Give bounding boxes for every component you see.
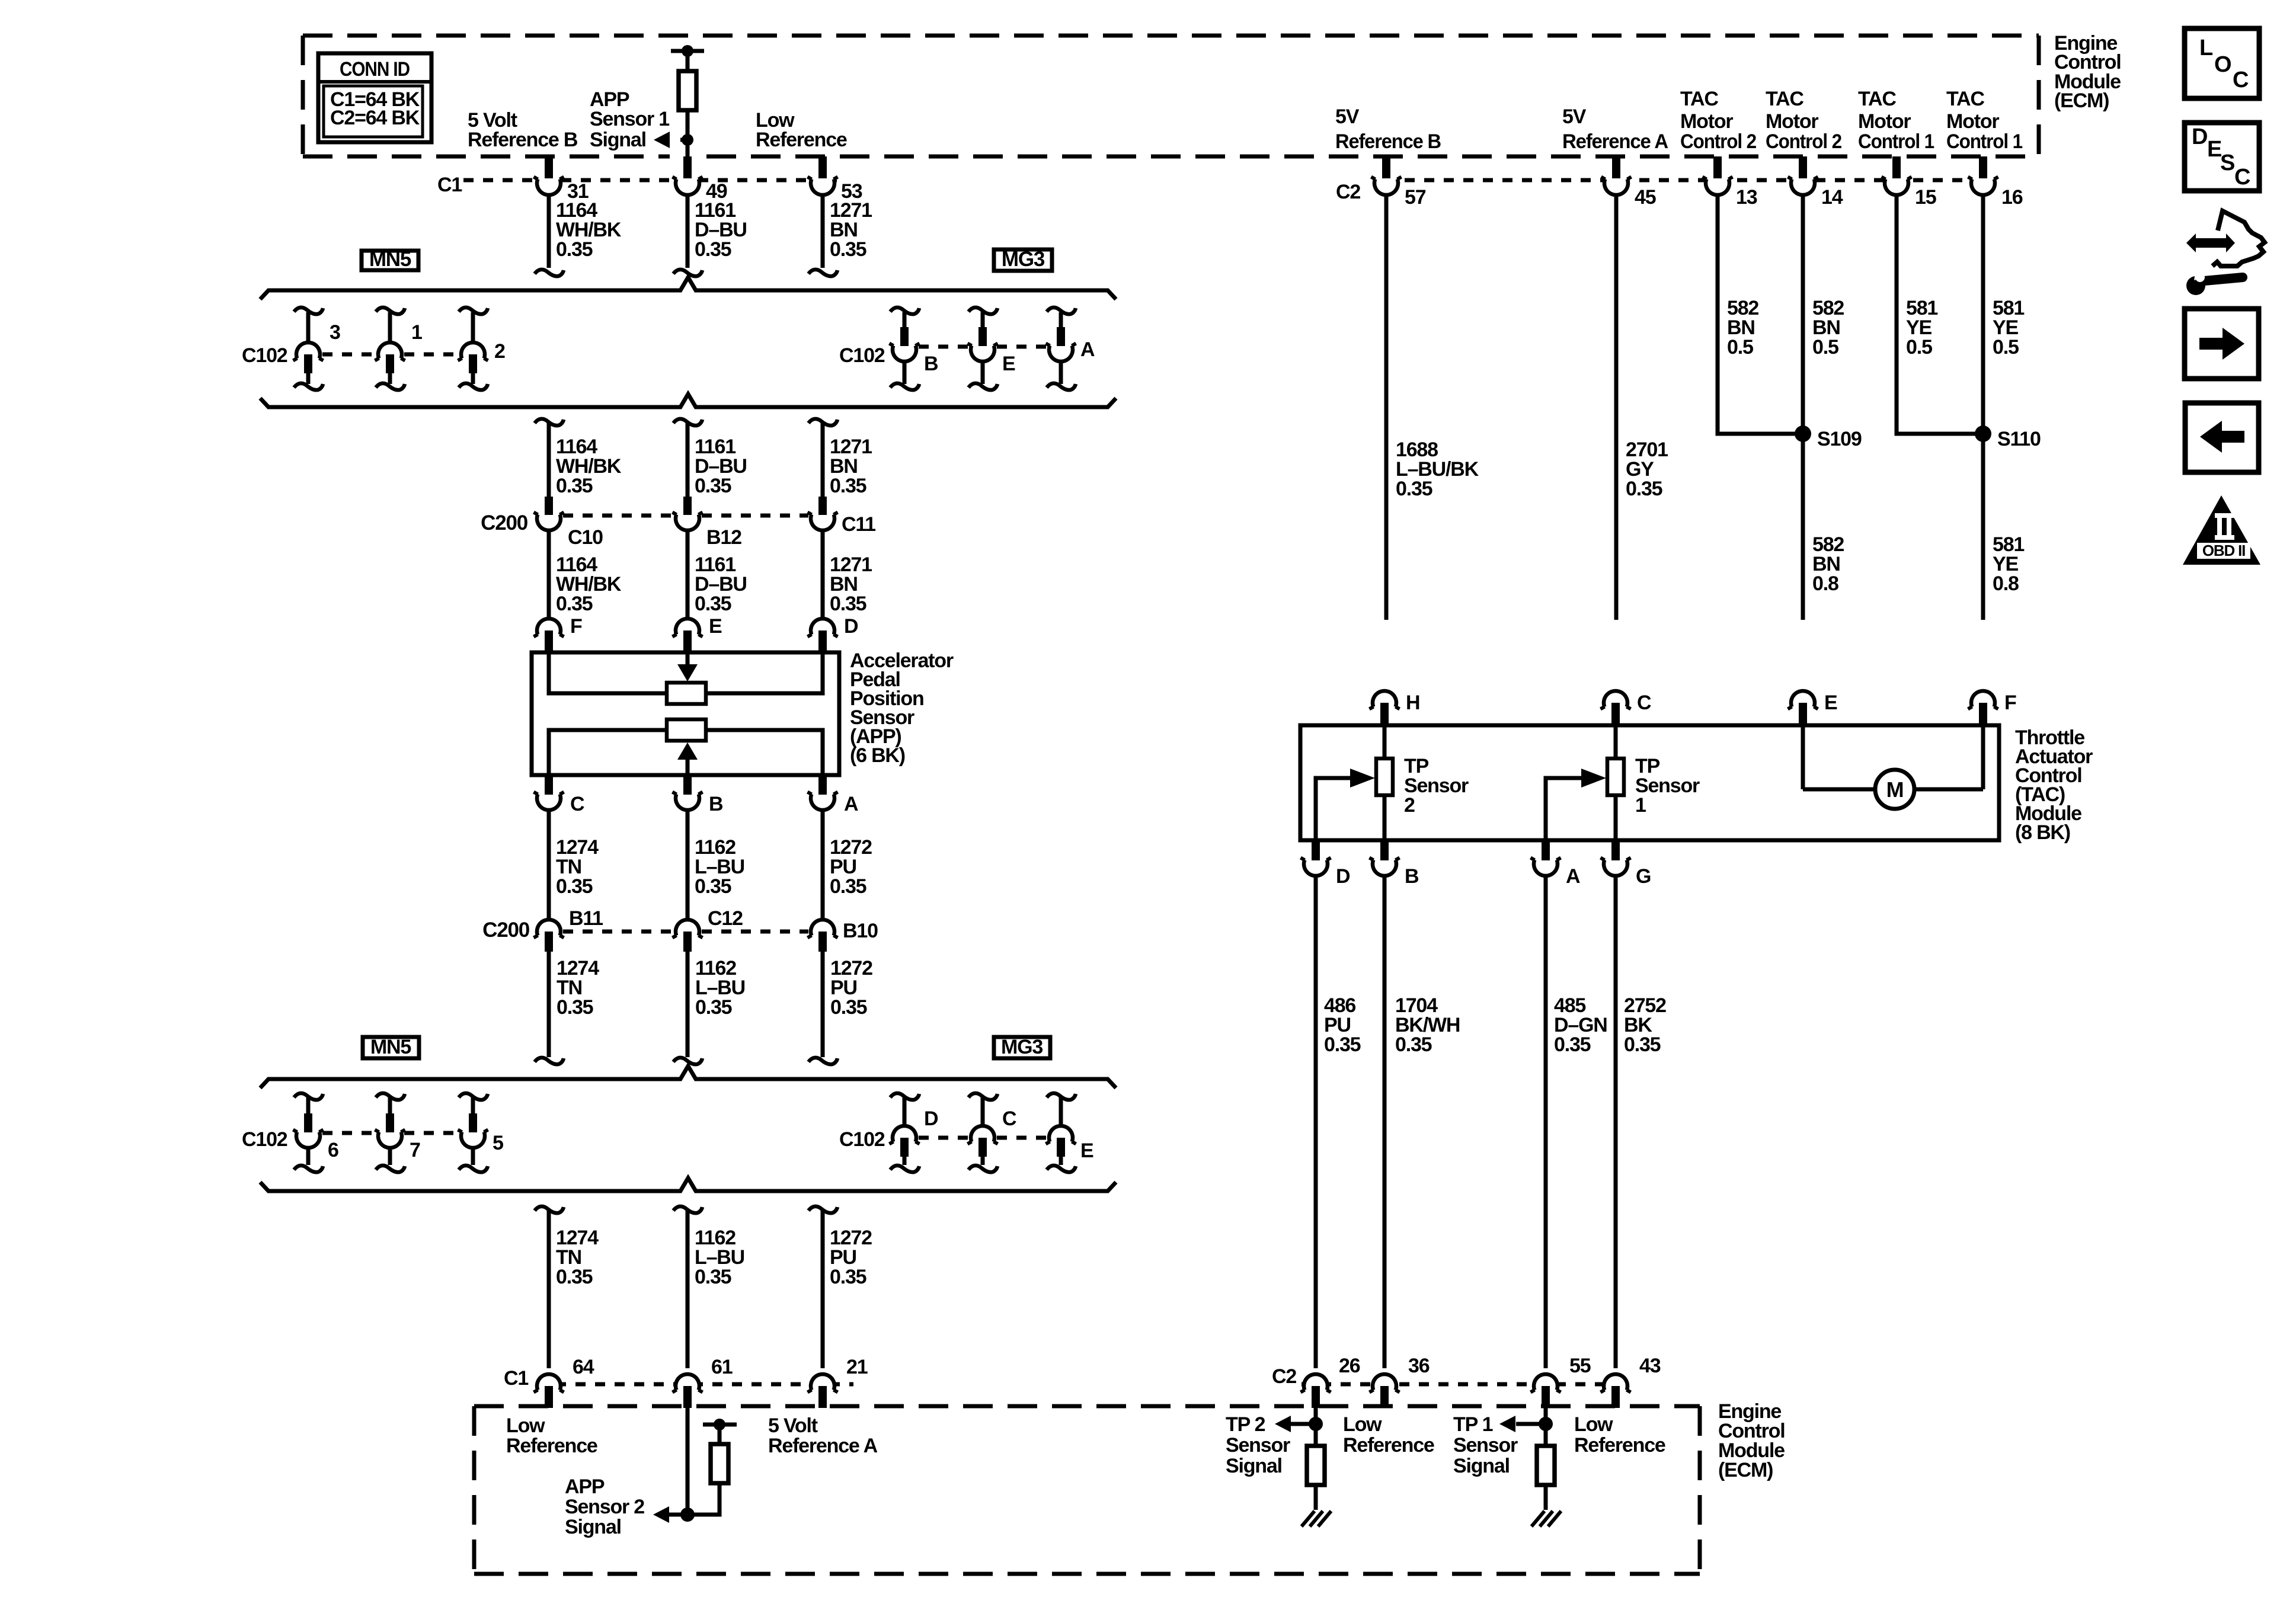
svg-text:B10: B10 <box>843 920 878 942</box>
pin 6 of C102 lower <box>294 1093 323 1100</box>
pin 3 of C102 upper <box>294 308 323 314</box>
svg-text:55: 55 <box>1569 1355 1591 1377</box>
pin 61 of C1 bottom <box>675 1368 700 1393</box>
pin 7 of C102 lower <box>376 1093 405 1100</box>
svg-text:Reference B: Reference B <box>468 129 578 151</box>
svg-text:16: 16 <box>2001 186 2023 209</box>
wire 1161 segment (band to C200) <box>673 419 702 425</box>
pin C of APP sensor bottom <box>545 775 553 795</box>
svg-text:TP 1: TP 1 <box>1453 1413 1493 1436</box>
module box: Engine Control Module (ECM) top, dashed <box>303 36 2039 156</box>
svg-text:D: D <box>1336 865 1350 888</box>
pin B11 of C200 lower <box>537 920 561 936</box>
svg-text:0.35: 0.35 <box>695 238 731 261</box>
icon: DESC box <box>2185 123 2259 191</box>
svg-text:0.35: 0.35 <box>695 875 731 898</box>
pin A of APP sensor bottom <box>818 775 827 795</box>
pin 45 of C2 <box>1604 172 1629 197</box>
svg-text:C2: C2 <box>1272 1365 1296 1388</box>
svg-text:0.35: 0.35 <box>1626 478 1662 500</box>
svg-text:0.35: 0.35 <box>1554 1033 1591 1056</box>
svg-text:0.35: 0.35 <box>695 593 731 615</box>
svg-text:15: 15 <box>1915 186 1936 209</box>
pin 36 of C2 bottom <box>1372 1368 1397 1393</box>
wire: APP pot1 left lead <box>549 654 667 693</box>
wiper arrow: APP sensor 1 <box>686 654 690 666</box>
wire: TP2 sensor signal <box>1314 1408 1318 1424</box>
pin 1 of C102 upper <box>376 308 405 314</box>
svg-text:E: E <box>1080 1140 1093 1162</box>
module box: Throttle Actuator Control (TAC) Module <box>1300 725 1999 840</box>
svg-text:Reference A: Reference A <box>768 1435 878 1457</box>
svg-text:S109: S109 <box>1817 428 1862 450</box>
svg-text:OBD II: OBD II <box>2202 542 2245 559</box>
svg-text:0.35: 0.35 <box>556 1266 593 1288</box>
resistor R2 (APP sensor 2 pull-up inside ECM) <box>703 1423 737 1427</box>
pin F of TAC module <box>1971 691 1995 707</box>
svg-text:C12: C12 <box>708 907 743 930</box>
wire 1162 segment (band to ECM) <box>673 1206 702 1213</box>
svg-text:0.35: 0.35 <box>695 996 732 1019</box>
pin 49 of C1 <box>675 172 700 197</box>
svg-text:Reference: Reference <box>1343 1434 1434 1457</box>
svg-text:2: 2 <box>1404 794 1415 817</box>
svg-text:C: C <box>1002 1108 1016 1130</box>
svg-text:Low: Low <box>1574 1413 1613 1436</box>
node: TP2 junction <box>1309 1417 1323 1431</box>
svg-text:13: 13 <box>1736 186 1757 209</box>
pin 53 of C1 <box>810 172 835 197</box>
harness band upper: bottom brace <box>260 394 1116 407</box>
svg-text:0.35: 0.35 <box>830 875 866 898</box>
pin C10 of C200 upper <box>545 497 553 515</box>
svg-text:C200: C200 <box>481 511 528 534</box>
node: TP1 junction <box>1539 1417 1553 1431</box>
pin E of APP sensor <box>676 619 699 635</box>
resistor: TP2 pull inside ECM <box>1314 1424 1318 1446</box>
pin 57 of C2 <box>1374 172 1399 197</box>
svg-text:MG3: MG3 <box>1001 1036 1043 1058</box>
wire 2701 GY (5V ref A to TAC C) <box>1614 194 1619 620</box>
wire 1161 D-BU segment <box>686 194 690 268</box>
node: APP sensor 2 signal junction <box>680 1507 695 1522</box>
svg-text:2: 2 <box>494 340 505 363</box>
svg-text:Signal: Signal <box>1453 1455 1510 1477</box>
resistor R1 (APP sensor 1 pull-up inside ECM) <box>671 49 704 53</box>
icon: left arrow box <box>2185 403 2259 472</box>
wire 1271 segment (band to C200) <box>808 419 837 425</box>
pin 2 of C102 upper <box>459 308 488 314</box>
svg-text:Control 2: Control 2 <box>1680 130 1756 153</box>
svg-text:Signal: Signal <box>1226 1455 1282 1477</box>
pin A of C102 upper MG3 <box>1047 308 1076 314</box>
svg-text:0.35: 0.35 <box>556 475 593 497</box>
svg-text:Control 1: Control 1 <box>1946 130 2022 153</box>
svg-text:Reference A: Reference A <box>1562 130 1668 153</box>
svg-text:M: M <box>1886 777 1904 802</box>
wire: APP pot2 right lead <box>706 730 823 773</box>
svg-text:Low: Low <box>506 1414 545 1437</box>
svg-text:0.35: 0.35 <box>830 996 867 1019</box>
module box: Accelerator Pedal Position Sensor (APP) <box>532 652 839 775</box>
pin 15 of C2 <box>1884 172 1909 197</box>
pin 16 of C2 <box>1971 172 1996 197</box>
wire: APP pot2 left lead <box>549 730 667 773</box>
svg-text:0.5: 0.5 <box>1727 336 1753 359</box>
svg-text:5V: 5V <box>1562 105 1587 128</box>
wire 1271 BN segment <box>821 194 825 268</box>
svg-text:B: B <box>1405 865 1419 888</box>
svg-text:Signal: Signal <box>565 1516 621 1538</box>
svg-text:F: F <box>2004 692 2016 714</box>
svg-text:0.35: 0.35 <box>830 238 866 261</box>
svg-text:0.35: 0.35 <box>1624 1033 1661 1056</box>
resistor: TP1 pull inside ECM <box>1544 1424 1548 1446</box>
svg-text:0.35: 0.35 <box>556 875 593 898</box>
svg-text:Motor: Motor <box>1946 110 1999 133</box>
pin 14 of C2 <box>1790 172 1815 197</box>
svg-text:C200: C200 <box>482 918 530 942</box>
svg-text:(ECM): (ECM) <box>2054 89 2109 112</box>
wire 1272 segment (band to ECM) <box>808 1206 837 1213</box>
svg-text:64: 64 <box>573 1356 594 1378</box>
svg-text:C: C <box>2233 68 2249 92</box>
svg-text:A: A <box>1080 338 1095 361</box>
svg-text:Sensor: Sensor <box>1453 1434 1518 1457</box>
svg-text:TP 2: TP 2 <box>1226 1413 1265 1436</box>
arrow: APP sensor 2 signal <box>653 1506 669 1523</box>
pin D of C102 lower MG3 <box>890 1093 919 1100</box>
pin C11 of C200 upper <box>818 497 827 515</box>
svg-text:E: E <box>1002 353 1015 375</box>
svg-text:S110: S110 <box>1997 428 2041 450</box>
svg-text:(6 BK): (6 BK) <box>850 744 905 767</box>
wire 582 BN 0.5 (pin 14) <box>1801 194 1805 620</box>
svg-text:C11: C11 <box>842 513 875 536</box>
pin C of TAC module <box>1604 691 1627 707</box>
svg-text:Motor: Motor <box>1766 110 1818 133</box>
svg-text:G: G <box>1636 865 1651 888</box>
pin B of APP sensor bottom <box>683 775 692 795</box>
svg-text:Reference: Reference <box>506 1435 597 1457</box>
pin A of TAC module bottom <box>1542 840 1550 860</box>
pin 43 of C2 bottom <box>1603 1368 1628 1393</box>
svg-text:0.5: 0.5 <box>1906 336 1932 359</box>
label box MN5 (upper) <box>362 251 418 270</box>
wire 581 YE 0.5 (pin 16) <box>1981 194 1985 620</box>
svg-text:57: 57 <box>1405 186 1426 209</box>
svg-text:Motor: Motor <box>1858 110 1911 133</box>
node: APP sensor 1 signal junction <box>682 134 693 146</box>
harness band upper: top brace <box>260 277 1116 299</box>
label box MG3 (lower) <box>994 1037 1050 1058</box>
svg-text:Sensor 2: Sensor 2 <box>565 1496 644 1518</box>
icon: right arrow box <box>2185 309 2259 379</box>
wire 1164 WH/BK segment (ECM to C102) <box>547 194 551 268</box>
svg-text:CONN ID: CONN ID <box>340 58 410 81</box>
svg-text:0.35: 0.35 <box>557 996 593 1019</box>
harness band lower: bottom brace <box>260 1178 1116 1191</box>
wire 1164 segment (band to C200) <box>535 419 564 425</box>
svg-text:A: A <box>1566 865 1580 888</box>
svg-text:0.35: 0.35 <box>556 593 593 615</box>
svg-text:Motor: Motor <box>1680 110 1733 133</box>
svg-text:Reference: Reference <box>756 129 847 151</box>
svg-text:APP: APP <box>565 1475 605 1498</box>
svg-text:D: D <box>844 615 858 638</box>
wiper arrow: TP sensor 2 <box>1316 778 1357 840</box>
ground: TP2 <box>1302 1511 1315 1526</box>
svg-text:C102: C102 <box>839 1128 885 1151</box>
resistor: TP sensor 1 pot <box>1614 725 1618 758</box>
svg-text:F: F <box>570 615 582 638</box>
svg-text:0.35: 0.35 <box>1324 1033 1361 1056</box>
svg-text:0.5: 0.5 <box>1812 336 1838 359</box>
svg-text:TAC: TAC <box>1946 88 1984 110</box>
svg-text:Control 1: Control 1 <box>1858 130 1934 153</box>
svg-text:S: S <box>2220 151 2234 175</box>
svg-text:B: B <box>924 353 938 375</box>
motor M (throttle motor) <box>1801 725 1805 789</box>
svg-text:36: 36 <box>1408 1355 1430 1377</box>
svg-text:MG3: MG3 <box>1002 248 1045 271</box>
svg-text:TAC: TAC <box>1858 88 1896 110</box>
svg-text:Sensor 1: Sensor 1 <box>590 108 669 130</box>
wire 582 BN 0.5 (pin 13) <box>1718 194 1803 434</box>
svg-text:Low: Low <box>1343 1413 1382 1436</box>
svg-text:1: 1 <box>1635 794 1646 817</box>
pin G of TAC module bottom <box>1611 840 1620 860</box>
svg-text:Sensor: Sensor <box>1226 1434 1290 1457</box>
svg-text:C2=64 BK: C2=64 BK <box>330 107 420 129</box>
svg-text:E: E <box>1824 692 1837 714</box>
svg-text:MN5: MN5 <box>370 1036 411 1058</box>
pin B10 of C200 lower <box>811 920 834 936</box>
label box MG3 (upper) <box>994 249 1052 271</box>
svg-text:E: E <box>2207 137 2221 162</box>
svg-text:L: L <box>2199 36 2213 60</box>
pin D of TAC module bottom <box>1312 840 1320 860</box>
svg-text:1: 1 <box>411 321 422 344</box>
svg-text:MN5: MN5 <box>369 248 411 271</box>
arrow: TP2 sensor signal <box>1275 1416 1291 1432</box>
svg-text:C1: C1 <box>504 1367 528 1390</box>
splice S110 <box>1975 425 1991 442</box>
pin E of TAC module <box>1791 691 1815 707</box>
svg-text:Signal: Signal <box>590 129 646 151</box>
svg-text:0.8: 0.8 <box>1812 572 1838 595</box>
svg-text:A: A <box>844 793 858 815</box>
svg-text:Control 2: Control 2 <box>1766 130 1841 153</box>
splice S109 <box>1795 425 1811 442</box>
svg-text:7: 7 <box>410 1139 420 1161</box>
pin 5 of C102 lower <box>459 1093 488 1100</box>
svg-text:B11: B11 <box>569 907 603 930</box>
wire: TP1 sensor signal <box>1544 1408 1548 1424</box>
svg-text:0.35: 0.35 <box>695 1266 731 1288</box>
harness band lower: top brace <box>260 1066 1116 1088</box>
svg-text:3: 3 <box>330 321 340 344</box>
svg-text:C1: C1 <box>437 174 462 196</box>
svg-text:C2: C2 <box>1336 181 1360 203</box>
svg-text:TAC: TAC <box>1766 88 1803 110</box>
svg-text:C102: C102 <box>242 344 287 367</box>
svg-text:C102: C102 <box>839 344 885 367</box>
wire 581 YE 0.5 (pin 15) <box>1897 194 1983 434</box>
resistor: TP sensor 2 pot <box>1383 725 1387 758</box>
pin C of C102 lower MG3 <box>968 1093 997 1100</box>
svg-text:(ECM): (ECM) <box>1718 1459 1773 1481</box>
wire end squiggle <box>808 1058 837 1064</box>
svg-text:C: C <box>2234 165 2250 190</box>
svg-text:D: D <box>2192 124 2207 149</box>
wire end squiggle <box>535 1058 564 1064</box>
pin B of C102 upper MG3 <box>890 308 919 314</box>
icon: LOC box <box>2185 28 2259 98</box>
wire 1274 segment (band to ECM) <box>535 1206 564 1213</box>
svg-text:TAC: TAC <box>1680 88 1718 110</box>
svg-text:5 Volt: 5 Volt <box>768 1414 818 1437</box>
svg-text:(8 BK): (8 BK) <box>2015 821 2070 844</box>
arrow: TP1 sensor signal <box>1499 1416 1515 1432</box>
svg-text:D: D <box>924 1108 938 1130</box>
pin E of C102 upper MG3 <box>968 308 997 314</box>
resistor: APP pot 2 <box>667 719 706 741</box>
pin 55 of C2 bottom <box>1533 1368 1558 1393</box>
pin F of APP sensor <box>537 619 561 635</box>
pin 31 of C1 <box>536 172 561 197</box>
icon: accelerator pedal with double arrow and wrench <box>2186 233 2235 252</box>
svg-text:0.35: 0.35 <box>556 238 593 261</box>
svg-text:0.35: 0.35 <box>1395 1033 1432 1056</box>
pin 26 of C2 bottom <box>1303 1368 1328 1393</box>
svg-text:0.35: 0.35 <box>695 475 731 497</box>
CONN ID table <box>318 53 431 142</box>
svg-text:61: 61 <box>711 1356 733 1378</box>
wire end squiggle <box>673 1058 702 1064</box>
svg-text:45: 45 <box>1635 186 1656 209</box>
pin H of TAC module <box>1373 691 1396 707</box>
resistor: APP pot 1 <box>667 683 706 704</box>
svg-text:0.5: 0.5 <box>1993 336 2019 359</box>
svg-text:5V: 5V <box>1335 105 1360 128</box>
wire 1688 L-BU/BK (5V ref B to TAC H) <box>1384 194 1389 620</box>
pin B of TAC module bottom <box>1380 840 1389 860</box>
svg-text:C: C <box>1637 692 1651 714</box>
svg-text:0.35: 0.35 <box>1396 478 1432 500</box>
wire: APP pot1 right lead <box>706 654 823 693</box>
svg-text:C102: C102 <box>242 1128 287 1151</box>
wire: APP sensor 2 signal inside ECM <box>686 1408 690 1515</box>
svg-text:5: 5 <box>493 1132 503 1154</box>
wiper arrow: TP sensor 1 <box>1546 778 1588 840</box>
svg-text:E: E <box>709 615 722 638</box>
svg-text:6: 6 <box>328 1139 338 1161</box>
icon: OBD II triangle <box>2183 495 2260 565</box>
module box: Engine Control Module (ECM) bottom, dashed <box>474 1406 1700 1574</box>
svg-text:C: C <box>570 793 584 815</box>
pin 64 of C1 bottom <box>536 1368 561 1393</box>
wiper arrow: APP sensor 2 <box>677 742 698 760</box>
svg-text:21: 21 <box>846 1356 868 1378</box>
svg-text:0.8: 0.8 <box>1993 572 2019 595</box>
svg-text:26: 26 <box>1339 1355 1360 1377</box>
svg-text:14: 14 <box>1821 186 1843 209</box>
svg-text:B: B <box>709 793 723 815</box>
pin C12 of C200 lower <box>676 920 699 936</box>
svg-text:C10: C10 <box>568 526 603 549</box>
svg-text:43: 43 <box>1639 1355 1661 1377</box>
pin D of APP sensor <box>811 619 834 635</box>
svg-text:O: O <box>2214 52 2231 77</box>
pin 13 of C2 <box>1705 172 1730 197</box>
svg-text:B12: B12 <box>706 526 741 549</box>
svg-text:0.35: 0.35 <box>830 593 866 615</box>
pin 21 of C1 bottom <box>810 1368 835 1393</box>
pin E of C102 lower MG3 <box>1047 1093 1076 1100</box>
arrow: APP sensor 1 signal <box>654 132 670 148</box>
svg-text:0.35: 0.35 <box>830 475 866 497</box>
ground: TP1 <box>1531 1511 1544 1526</box>
svg-text:H: H <box>1406 692 1419 714</box>
pin B12 of C200 upper <box>683 497 692 515</box>
svg-text:Reference: Reference <box>1574 1434 1665 1457</box>
label box MN5 (lower) <box>363 1037 419 1058</box>
svg-text:0.35: 0.35 <box>830 1266 866 1288</box>
svg-text:Reference B: Reference B <box>1335 130 1441 153</box>
